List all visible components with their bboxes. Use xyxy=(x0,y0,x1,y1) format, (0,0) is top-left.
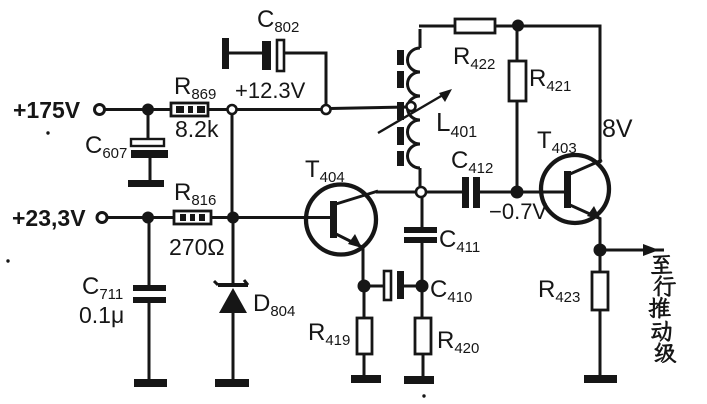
svg-text:−0.7V: −0.7V xyxy=(489,199,547,224)
capacitor C802 xyxy=(222,38,284,71)
node C410 right junction xyxy=(417,281,427,291)
ground for C607 xyxy=(128,180,164,187)
label 8.2k xyxy=(175,116,219,142)
node main junction (L401/T404/C412) xyxy=(416,187,426,197)
inductor L401 xyxy=(407,29,420,188)
ground for R423 xyxy=(584,375,617,383)
capacitor C802 branch wire down xyxy=(284,53,326,105)
node junction at C711 top xyxy=(144,213,153,222)
label chinese zhi (至) xyxy=(651,255,672,274)
L401 tap node xyxy=(407,102,416,111)
ground for C711 xyxy=(134,379,167,387)
svg-text:+175V: +175V xyxy=(13,97,81,123)
wire junction down to R421 xyxy=(516,29,519,62)
label D804 xyxy=(253,290,295,320)
label T403 xyxy=(537,127,577,157)
svg-text:+12.3V: +12.3V xyxy=(235,78,306,103)
label chinese dong (动) xyxy=(651,321,671,341)
node junction at C607 top xyxy=(144,105,153,114)
label C607 xyxy=(85,132,127,162)
label C802 xyxy=(257,6,299,36)
resistor R420 xyxy=(415,318,431,377)
label R421 xyxy=(529,65,571,95)
resistor R869 xyxy=(171,103,208,116)
svg-text:+23,3V: +23,3V xyxy=(12,205,86,231)
label chinese hang (行) xyxy=(654,276,676,297)
node T403 emitter junction xyxy=(595,245,605,255)
wire node C to L401 tap xyxy=(330,107,407,109)
wire T404 emitter down xyxy=(362,246,365,283)
ground for R419 xyxy=(351,375,381,383)
label 0.1u xyxy=(79,302,124,328)
resistor R419 xyxy=(357,318,372,376)
label +175V xyxy=(13,97,81,123)
label +12.3V xyxy=(235,78,306,103)
label +23.3V xyxy=(12,205,86,231)
wire L401 top to R422 xyxy=(419,25,456,28)
svg-text:270Ω: 270Ω xyxy=(169,234,225,260)
label R420 xyxy=(437,327,479,357)
wire T403 emitter down xyxy=(599,218,602,248)
label R869 xyxy=(174,73,216,103)
wire junction to R423 xyxy=(599,254,602,273)
wire C412 to T403 base xyxy=(480,191,565,194)
node junction at D804 top xyxy=(229,213,238,222)
svg-text:8.2k: 8.2k xyxy=(175,116,219,142)
wire R422 to 8V rail corner xyxy=(495,26,600,163)
label chinese tui (推) xyxy=(649,297,671,318)
wire output arrow xyxy=(604,244,664,256)
svg-text:0.1μ: 0.1μ xyxy=(79,302,124,328)
label C711 xyxy=(82,273,123,303)
node B (open junction after R869) xyxy=(228,105,237,114)
resistor R421 xyxy=(509,61,526,189)
capacitor C411 xyxy=(404,227,437,282)
wire C711 down xyxy=(148,221,151,286)
wire R869 to node B xyxy=(208,108,322,111)
wire collector line to node xyxy=(376,191,417,194)
label 8V xyxy=(602,115,633,143)
wire +23.3V to R816 xyxy=(107,216,175,219)
label 270ohm xyxy=(169,234,225,260)
label R422 xyxy=(453,43,495,73)
diode D804 xyxy=(214,280,248,380)
resistor R423 xyxy=(592,272,608,376)
wire junction to R420 xyxy=(421,290,424,319)
capacitor C412 xyxy=(462,177,480,208)
L401 adjustable core (dashed bar) xyxy=(397,50,404,166)
node junction above R421 xyxy=(514,21,523,30)
capacitor C607 xyxy=(131,139,168,181)
resistor R422 xyxy=(455,19,495,33)
label R419 xyxy=(308,319,350,349)
resistor R816 xyxy=(174,211,211,224)
node T404 emitter junction xyxy=(359,281,369,291)
label R816 xyxy=(174,179,216,209)
L401 adjust arrow xyxy=(378,89,452,133)
wire emitter junction to R419 xyxy=(363,290,366,319)
label T404 xyxy=(305,156,345,186)
wire node B down to R816 line xyxy=(231,113,234,213)
stray speck dot xyxy=(6,131,425,397)
wire node to C412 xyxy=(426,191,462,194)
label C410 xyxy=(430,276,472,306)
transistor T404 xyxy=(306,185,378,255)
label R423 xyxy=(538,276,580,306)
svg-text:8V: 8V xyxy=(602,115,633,143)
node +175V terminal xyxy=(95,105,105,115)
ground for D804 xyxy=(215,379,249,387)
label C411 xyxy=(439,226,480,256)
label C412 xyxy=(451,147,493,177)
ground for R420 xyxy=(404,376,434,384)
capacitor C410 xyxy=(368,271,418,300)
label L401 xyxy=(436,107,477,141)
label -0.7V xyxy=(489,199,547,224)
wire C411 top xyxy=(421,197,424,228)
node +23.3V terminal xyxy=(97,213,107,223)
transistor T403 xyxy=(541,155,609,223)
label chinese ji (级) xyxy=(655,343,676,363)
wire R816 to T404 base xyxy=(211,216,331,219)
node C (open junction under C802) xyxy=(322,105,331,114)
capacitor C711 xyxy=(133,285,166,380)
wire C607 from junction xyxy=(147,113,150,140)
wire D804 from junction xyxy=(232,221,235,284)
wire +175V to R869 xyxy=(105,108,172,111)
node junction at T403 base line xyxy=(512,187,522,197)
